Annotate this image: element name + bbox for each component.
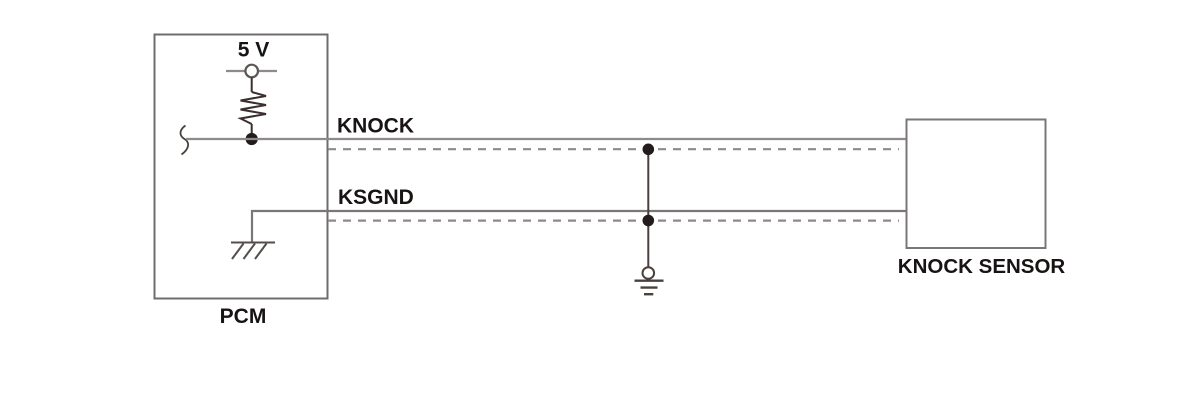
junction node KNOCK xyxy=(246,133,258,145)
wire KSGND vertical to ground xyxy=(252,211,907,242)
svg-text:KNOCK: KNOCK xyxy=(337,115,414,138)
KNOCK SENSOR box xyxy=(907,120,1046,249)
wire shield drain vertical xyxy=(647,149,649,266)
wire 5V terminal bar xyxy=(226,70,277,72)
svg-text:KSGND: KSGND xyxy=(338,186,414,209)
svg-text:PCM: PCM xyxy=(220,305,267,328)
svg-text:5 V: 5 V xyxy=(238,39,270,62)
shield dashed KNOCK xyxy=(328,148,899,150)
resistor R (pull-up) xyxy=(241,92,267,124)
wire resistor bottom lead xyxy=(251,124,253,139)
PCM box xyxy=(155,35,328,299)
node shield KNOCK xyxy=(643,144,655,156)
terminal circle 5V xyxy=(245,65,258,78)
ground shield earth xyxy=(635,267,664,294)
wire resistor top lead xyxy=(251,78,253,93)
shield dashed KSGND xyxy=(328,220,899,222)
svg-text:KNOCK SENSOR: KNOCK SENSOR xyxy=(898,255,1066,278)
wire break squiggle xyxy=(181,126,189,155)
ground PCM signal ground xyxy=(231,243,275,260)
node shield KSGND xyxy=(643,215,655,227)
wire KNOCK xyxy=(186,138,907,140)
